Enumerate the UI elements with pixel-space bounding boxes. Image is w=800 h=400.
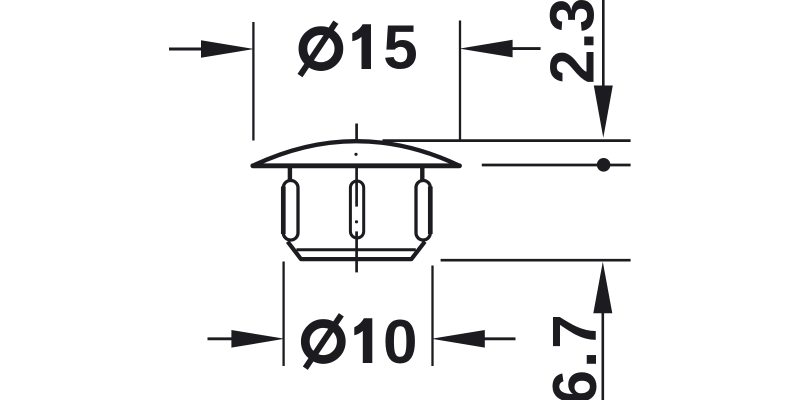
dimension text D15 digit 1 (drawn) [352, 24, 371, 69]
centerline dash below plug [355, 231, 358, 272]
neck right wall [420, 168, 424, 180]
dimension text D15 diameter symbol slash [300, 22, 336, 75]
neck left wall [288, 168, 292, 180]
svg-text:6.7: 6.7 [541, 312, 610, 400]
dimension 6.7 vertical dimension line from bottom [601, 311, 604, 400]
dimension 2.3 reference line at rim level [482, 164, 631, 167]
dimension 2.3 reference line at dome top level [383, 139, 631, 142]
dimension 2.3 dot marker on rim line [597, 158, 611, 172]
centerline dash above dome [355, 124, 358, 141]
expansion slot center [350, 181, 363, 238]
dimension D10 right extension line [431, 266, 433, 367]
plug bottom outline with chamfers [288, 242, 425, 260]
dimension 6.7 up arrowhead [593, 262, 612, 314]
dimension D10 right arrow tail [480, 337, 516, 340]
dimension D10 left arrowhead [231, 330, 284, 348]
dimension D15 left arrow tail [169, 48, 206, 51]
dimension D15 left arrowhead [201, 40, 254, 58]
slot inner dot [355, 220, 358, 223]
svg-text:2.3: 2.3 [538, 0, 607, 84]
dimension 2.3 down arrowhead [594, 86, 613, 138]
svg-text:5: 5 [383, 14, 417, 83]
plug inner bottom edge line [297, 248, 416, 251]
dimension text D10 diameter symbol circle [305, 324, 341, 360]
dimension D15 right arrowhead [460, 40, 513, 58]
dimension text D10 digit 1 (drawn) [354, 318, 372, 363]
dimension D15 right extension line [459, 21, 461, 143]
svg-text:0: 0 [383, 308, 417, 377]
centerline dash through slot [355, 167, 358, 206]
dimension D10 right arrowhead [432, 330, 485, 348]
dimension D10 left extension line [282, 262, 284, 367]
dimension D10 left arrow tail [208, 337, 239, 340]
dimension D15 right arrow tail [506, 47, 541, 50]
dimension 6.7 reference line at plug bottom level [441, 259, 631, 262]
dimension D15 left extension line [252, 22, 254, 141]
center mark dot on dome [354, 153, 357, 156]
dimension text D10 diameter symbol slash [305, 315, 341, 368]
dimension 2.3 vertical dimension line from top [602, 0, 605, 90]
cap dome (head) top arc [253, 141, 460, 166]
rib fin right [416, 181, 430, 241]
rib fin left outer thick wall [281, 187, 286, 235]
rib fin left [283, 181, 298, 241]
rib fin right outer thick wall [428, 187, 433, 235]
cap dome bottom edge line [253, 163, 460, 168]
dimension text D15 diameter symbol circle [303, 31, 339, 67]
